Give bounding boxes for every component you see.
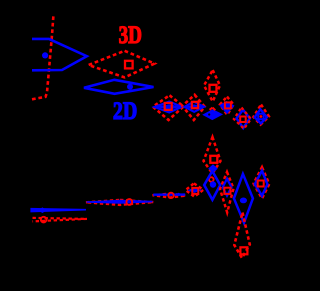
E red square marker <box>240 247 247 254</box>
tall T1 red dashed diamond <box>204 70 220 102</box>
pair P1 blue fill <box>155 104 182 109</box>
P5 red dashed diamond <box>253 105 269 125</box>
big 3D red dashed diamond <box>88 51 154 78</box>
top-left blue clipped region <box>32 39 87 70</box>
red circle marker near A top <box>209 177 214 182</box>
S1 blue filled flat diamond <box>187 188 202 193</box>
L2 blue flat diamond <box>87 201 153 204</box>
2D blue dot marker <box>127 84 133 90</box>
P4 red dashed inner diamond <box>234 108 251 129</box>
P4 red circle marker <box>240 117 246 123</box>
T1 red square marker <box>210 85 217 92</box>
L3 blue dot marker <box>38 207 47 213</box>
S1 red square marker <box>192 188 198 194</box>
top-left blue dot marker <box>42 52 48 58</box>
B red square marker <box>224 188 230 194</box>
D red dashed diamond <box>254 167 270 198</box>
P5 red dot <box>260 115 263 118</box>
D red square marker <box>258 181 264 187</box>
P3 blue filled diamond <box>220 102 233 113</box>
L1 blue bulge <box>175 193 182 196</box>
L4 red dashed clipped flat diamond <box>33 218 88 222</box>
L4 red circle marker <box>41 217 47 223</box>
pair P2 red square marker <box>192 102 198 108</box>
pair P1 red dashed diamond <box>153 95 184 120</box>
P3 red square marker <box>225 102 231 108</box>
top-left red dashed clipped region <box>32 15 54 100</box>
pair P1 red square marker <box>165 103 172 110</box>
B1 blue filled flat diamond <box>204 110 222 119</box>
T2 red square marker <box>210 156 217 163</box>
C blue marker blob <box>240 198 247 204</box>
A blue dot marker <box>210 181 216 187</box>
3D red open square marker <box>125 61 133 69</box>
L1 red dashed flat diamond <box>153 194 187 198</box>
L3 blue flat diamond <box>31 209 86 212</box>
A tall blue outline diamond <box>204 171 220 200</box>
pair P2 blue outline <box>185 102 205 112</box>
L1 blue line <box>153 193 185 195</box>
D blue outline diamond <box>255 171 268 196</box>
T2 tall red dashed diamond <box>204 137 221 174</box>
P4 blue outline diamond <box>237 110 250 128</box>
P3 red dashed diamond <box>220 97 234 115</box>
pair P2 blue fill <box>185 104 204 109</box>
L2 red dashed flat diamond <box>86 200 154 205</box>
B1 dark marker hole <box>208 113 210 115</box>
C tall blue outline diamond <box>234 174 253 223</box>
E tall red dashed kite <box>234 213 250 259</box>
T2 blue filled small diamond <box>208 164 218 173</box>
svg-text:2D: 2D <box>113 98 137 125</box>
pair P1 blue outline <box>155 102 182 113</box>
pair P2 red dashed diamond <box>182 95 204 120</box>
P5 blue square marker <box>258 114 263 119</box>
P5 blue outline diamond <box>255 109 267 123</box>
L1 red circle marker <box>168 193 173 198</box>
B blue small outline diamond <box>223 179 232 196</box>
small red tip above B1 <box>210 108 216 111</box>
L2 red circle marker <box>126 199 132 205</box>
big 2D blue diamond <box>84 80 154 94</box>
S1 red dashed diamond <box>186 183 204 196</box>
svg-text:3D: 3D <box>119 22 142 49</box>
B tall red dashed kite <box>220 172 234 213</box>
